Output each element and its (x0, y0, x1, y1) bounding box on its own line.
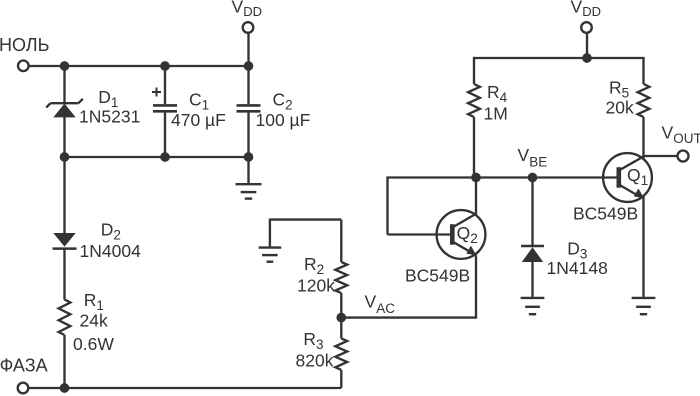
wire R2 top riser (340, 220, 342, 262)
wire VAC to Q2 emitter (341, 316, 476, 318)
node VAC junction (336, 313, 346, 323)
svg-text:470 µF: 470 µF (171, 110, 226, 130)
wire R3 top (340, 318, 342, 339)
capacitor C1 (153, 105, 177, 111)
wire left column upper (63, 157, 65, 233)
wire Q2 base lead (388, 233, 451, 235)
svg-text:1N4148: 1N4148 (547, 258, 608, 278)
svg-text:VDD: VDD (232, 0, 262, 19)
junction bottom of D1 (60, 152, 70, 162)
wire R2 to ground (270, 218, 341, 220)
svg-text:820k: 820k (296, 351, 334, 371)
resistor R5 (638, 84, 650, 117)
svg-text:ФАЗА: ФАЗА (0, 355, 48, 375)
wire R4 bottom stem (473, 117, 475, 178)
terminal ФАЗА (18, 383, 29, 394)
node VBE junction (528, 173, 538, 183)
capacitor C2 (237, 105, 261, 111)
wire D1 top stem (63, 66, 65, 102)
ground below C2 (236, 184, 262, 198)
transistor Q1 (603, 153, 652, 202)
wire bottom rail (28, 387, 341, 389)
zener diode D1 (46, 99, 83, 118)
svg-text:C2: C2 (273, 90, 293, 113)
resistor R2 (335, 262, 347, 293)
diode D2 (53, 233, 77, 249)
ground below D3 (521, 298, 545, 314)
wire R4 top stem (473, 57, 475, 84)
transistor Q2 (437, 210, 486, 259)
terminal VDD left (243, 22, 254, 33)
svg-text:НОЛЬ: НОЛЬ (0, 35, 49, 55)
svg-text:20k: 20k (606, 98, 634, 118)
wire Q2 emitter riser (475, 255, 477, 319)
wire VDD left stem (247, 33, 249, 66)
wire D3 ground stem (531, 261, 533, 298)
capacitor C1 plus sign (152, 88, 161, 97)
svg-text:VOUT: VOUT (662, 123, 700, 146)
wire R5 bottom / Q1 collector (642, 117, 644, 159)
svg-text:BC549B: BC549B (405, 265, 470, 285)
wire D1 bottom stem (63, 117, 65, 157)
svg-text:1N4004: 1N4004 (80, 241, 142, 261)
wire VDD right stem (586, 33, 588, 58)
svg-text:D2: D2 (101, 220, 121, 243)
wire R3 bottom riser (340, 370, 342, 388)
svg-text:24k: 24k (80, 311, 108, 331)
junction bottom of C1 (160, 152, 170, 162)
wire left column lower (63, 335, 65, 388)
svg-text:VAC: VAC (365, 292, 396, 316)
wire VOUT tap (644, 155, 678, 157)
svg-text:R3: R3 (303, 329, 323, 352)
svg-text:BC549B: BC549B (573, 203, 638, 223)
junction VDD right rail (582, 53, 592, 63)
svg-text:R1: R1 (84, 290, 104, 313)
svg-text:120k: 120k (297, 276, 335, 296)
wire capacitor bottom rail (65, 156, 249, 158)
terminal VOUT (678, 151, 689, 162)
svg-text:1N5231: 1N5231 (79, 107, 140, 127)
wire Q2 collector riser (475, 178, 477, 215)
wire C1 top stem (164, 66, 166, 104)
wire Q1 emitter stem (642, 196, 644, 298)
svg-text:Q2: Q2 (457, 223, 478, 246)
svg-text:R2: R2 (304, 254, 324, 277)
wire base loop vertical (386, 176, 388, 234)
wire R2 bottom (340, 293, 342, 318)
wire C2 bottom stem (247, 113, 249, 157)
svg-text:VDD: VDD (571, 0, 601, 19)
wire top rail (29, 65, 249, 67)
wire C2 ground stem (247, 157, 249, 184)
wire VBE rail (388, 176, 619, 178)
svg-text:R4: R4 (487, 82, 508, 105)
svg-text:1M: 1M (484, 104, 508, 124)
ground left of R2 (259, 248, 282, 262)
wire C1 bottom stem (164, 113, 166, 157)
junction bottom rail (60, 383, 70, 393)
wire C2 top stem (247, 66, 249, 104)
junction bottom of C2 (244, 152, 254, 162)
svg-text:VBE: VBE (518, 145, 548, 170)
svg-text:0.6W: 0.6W (73, 334, 114, 354)
ground below Q1 (632, 298, 656, 314)
wire R5 top stem (642, 57, 644, 84)
wire ground stem left of R2 (269, 219, 271, 248)
svg-text:C1: C1 (189, 90, 209, 113)
wire left column mid (63, 249, 65, 300)
junction top of D1 (60, 61, 70, 71)
svg-text:Q1: Q1 (627, 165, 648, 188)
resistor R1 (59, 300, 71, 336)
svg-text:100 µF: 100 µF (256, 110, 311, 130)
wire D3 top stem (531, 178, 533, 247)
resistor R3 (335, 338, 347, 370)
junction top of C1 (160, 61, 170, 71)
diode D3 (521, 246, 544, 262)
wire top right rail (474, 57, 644, 59)
junction top rail / VDD (244, 61, 254, 71)
terminal НОЛЬ (18, 61, 29, 72)
terminal VDD right (581, 22, 592, 33)
junction R4/Q2 collector (471, 173, 481, 183)
resistor R4 (468, 84, 480, 117)
